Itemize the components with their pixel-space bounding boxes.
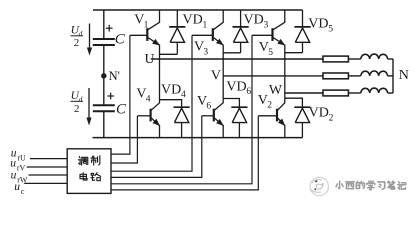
wire VD5 anode down [302, 42, 304, 52]
svg-text:4: 4 [146, 94, 151, 104]
wire VD3 cathode to + rail [240, 10, 242, 26]
svg-text:W: W [269, 83, 283, 98]
svg-text:2: 2 [74, 103, 80, 115]
inductor phase W [361, 88, 388, 93]
svg-text:1: 1 [144, 20, 149, 30]
svg-text:U: U [145, 52, 155, 67]
wire emitter-diode junction (top) [223, 52, 240, 54]
wire DC-link bus lower segment [103, 112, 105, 138]
wire V3 emitter down to node [222, 45, 224, 76]
wire V resistor to inductor [348, 75, 360, 77]
wire V4 emitter to - rail [159, 125, 161, 137]
svg-text:VD: VD [309, 106, 329, 121]
wire V5 collector to + rail [284, 10, 286, 23]
node W label [269, 83, 283, 98]
wire V6 emitter to - rail [222, 125, 224, 137]
wire VD4 anode to - rail [181, 123, 183, 138]
svg-text:u: u [10, 157, 16, 169]
svg-text:C: C [116, 101, 127, 117]
capacitor C2 (lower) [93, 105, 115, 111]
svg-text:V: V [211, 69, 221, 84]
wire W resistor to inductor [348, 92, 360, 94]
voltage arrow Ud/2 (upper) [87, 24, 92, 56]
node N label [399, 68, 409, 83]
svg-text:2: 2 [267, 101, 272, 111]
wire V2 emitter to - rail [284, 125, 286, 137]
wire phase W output line [285, 92, 323, 94]
label V2 [258, 93, 272, 111]
wire N junction vertical [392, 59, 394, 93]
label VD4 [161, 82, 186, 100]
transistor V4 [137, 103, 160, 126]
watermark logo [310, 177, 328, 195]
wire VD1 anode down [176, 42, 178, 54]
wire input u_c [24, 182, 67, 184]
svg-text:VD: VD [308, 17, 328, 32]
svg-text:VD: VD [226, 79, 246, 94]
wire V1 emitter down to node [159, 45, 161, 59]
label 电路 (circuit) [80, 173, 101, 181]
wire input u_rW [29, 174, 68, 176]
wire gate drive to V4 [111, 116, 137, 163]
node V label [211, 69, 221, 84]
svg-text:rV: rV [17, 163, 26, 172]
diode VD1 [169, 27, 185, 42]
wire DC-link bus middle segment [103, 46, 105, 105]
wire W inductor to N [388, 92, 393, 94]
inductor phase V [361, 71, 388, 76]
transistor V2 [258, 103, 285, 126]
svg-text:6: 6 [246, 87, 251, 97]
plus sign (upper capacitor) [106, 25, 113, 32]
label VD3 [244, 13, 269, 31]
plus sign (lower capacitor) [107, 93, 114, 100]
resistor phase U [323, 56, 348, 62]
wire emitter-diode junction (top) [285, 52, 303, 54]
wire gate drive to V6 [111, 116, 202, 178]
wire V3 collector to + rail [222, 10, 224, 23]
wire VD1 cathode to + rail [176, 10, 178, 26]
node U label [145, 52, 155, 67]
transistor V5 [252, 22, 285, 45]
label VD5 [308, 17, 333, 35]
wire gate drive to V5 [111, 35, 252, 184]
wire DC-link bus upper segment [103, 10, 105, 38]
svg-text:N: N [399, 68, 409, 83]
svg-text:C: C [115, 32, 126, 48]
svg-text:VD: VD [161, 82, 181, 97]
transistor V6 [202, 103, 224, 126]
svg-text:VD: VD [244, 13, 264, 28]
wire VD2 junction stub [285, 98, 303, 106]
diode VD6 [231, 107, 247, 122]
svg-text:2: 2 [329, 113, 334, 123]
svg-text:u: u [14, 181, 20, 193]
resistor phase W [323, 90, 348, 96]
wire VD6 anode to - rail [238, 123, 240, 138]
modulation circuit block [67, 149, 111, 194]
svg-text:VD: VD [183, 13, 203, 28]
label u_c [14, 181, 25, 196]
label V6 [197, 94, 211, 112]
resistor phase V [323, 73, 348, 79]
svg-text:3: 3 [203, 47, 208, 57]
label VD6 [226, 79, 251, 97]
svg-text:6: 6 [206, 102, 211, 112]
wire bottom DC rail (-) [93, 137, 303, 139]
wire gate drive to V2 [111, 116, 258, 190]
transistor V1 [130, 22, 160, 45]
wire VD3 anode down [240, 42, 242, 53]
svg-text:1: 1 [203, 20, 208, 30]
label Ud/2 (lower) [71, 90, 84, 115]
svg-text:5: 5 [268, 48, 273, 58]
node N' junction dot [101, 73, 106, 78]
label VD2 [309, 106, 334, 124]
watermark text 小西的学习笔记 [336, 181, 406, 190]
diode VD4 [174, 107, 190, 122]
wire phase V output line [223, 75, 323, 77]
label C (lower) [116, 101, 127, 117]
wire V6 collector from node [222, 76, 224, 103]
svg-text:2: 2 [74, 37, 80, 49]
inductor phase U [361, 54, 388, 59]
wire top DC rail (+) [93, 9, 303, 11]
label VD1 [183, 13, 208, 31]
wire U inductor to N [388, 58, 393, 60]
wire gate drive to V3 [111, 35, 192, 171]
label V4 [136, 87, 150, 105]
wire V inductor to N [388, 75, 393, 77]
label N' [109, 69, 120, 83]
transistor V3 [192, 22, 224, 45]
label u_rV [10, 157, 25, 172]
label V1 [134, 13, 148, 31]
svg-text:4: 4 [181, 90, 186, 100]
wire V1 collector to + rail [159, 10, 161, 23]
wire gate drive to V1 [111, 35, 130, 154]
wire V2 collector from node [284, 93, 286, 103]
wire input u_rU [30, 158, 67, 160]
label Ud/2 (upper) [71, 25, 84, 50]
capacitor C1 (upper) [93, 39, 115, 45]
wire VD4 junction stub [160, 100, 182, 107]
wire emitter-diode junction (top) [160, 53, 178, 55]
wire VD6 junction stub [223, 99, 239, 107]
wire U resistor to inductor [348, 58, 360, 60]
label V5 [259, 40, 273, 58]
svg-text:c: c [21, 187, 25, 196]
diode VD2 [294, 107, 310, 122]
label u_rW [11, 170, 28, 185]
wire input u_rV [27, 166, 67, 168]
svg-text:rU: rU [17, 154, 26, 163]
label 调制 (modulation) [78, 156, 100, 165]
wire VD2 anode to - rail [301, 123, 303, 138]
wire V5 emitter down to node [284, 45, 286, 93]
diode VD5 [294, 27, 310, 42]
diode VD3 [233, 27, 249, 42]
label V3 [194, 40, 208, 58]
svg-text:u: u [11, 170, 17, 182]
svg-text:N': N' [109, 69, 120, 83]
svg-text:5: 5 [328, 24, 333, 34]
wire phase U output line [151, 58, 323, 60]
wire VD5 cathode to + rail [302, 10, 304, 26]
voltage arrow Ud/2 (lower) [86, 88, 91, 126]
wire V4 collector from node [159, 59, 161, 103]
label u_rU [11, 148, 26, 163]
label C (upper) [115, 32, 126, 48]
svg-text:3: 3 [264, 20, 269, 30]
